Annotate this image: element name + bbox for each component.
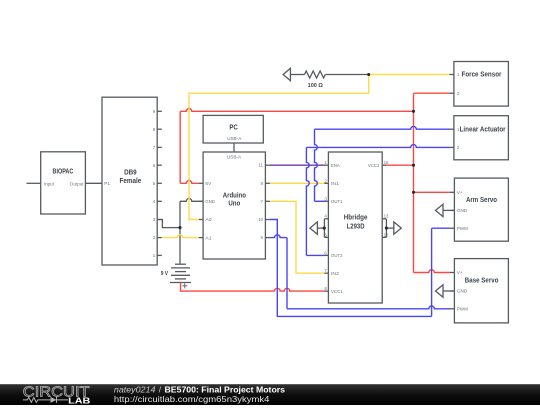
Force Sensor box xyxy=(454,62,509,107)
svg-text:GND: GND xyxy=(457,208,468,213)
battery plus sign xyxy=(182,285,187,287)
wire Arm Servo GND to ground port xyxy=(443,209,454,211)
Arm Servo box xyxy=(454,178,508,241)
wire DB9 pin3 to GND node xyxy=(157,220,180,228)
junction red VCC2 xyxy=(412,164,415,167)
junction left bracket xyxy=(323,227,326,230)
junction yellow resistor node xyxy=(367,73,370,76)
svg-text:PWM: PWM xyxy=(457,226,468,231)
wire red to Force Sensor pin2 xyxy=(414,92,450,94)
svg-text:Linear Actuator: Linear Actuator xyxy=(460,126,506,133)
ground port flag Arm Servo xyxy=(436,204,444,216)
wire yellow DB9 pin2 to A1 with hop over gray xyxy=(162,235,199,238)
Arduino Uno box xyxy=(203,152,265,259)
svg-text:GND: GND xyxy=(457,289,468,294)
junction GND node xyxy=(178,226,181,229)
wire red Hbridge VCC2 to node xyxy=(387,164,414,166)
wire BIOPAC output to DB9 P1 xyxy=(85,182,102,184)
svg-text:10: 10 xyxy=(258,217,263,222)
wire blue OUT2 vertical with hops xyxy=(306,147,309,255)
svg-text:A0: A0 xyxy=(205,217,212,222)
svg-text:Uno: Uno xyxy=(228,201,240,208)
logo resistor-diode glyph xyxy=(23,397,51,402)
svg-text:Arm Servo: Arm Servo xyxy=(466,197,497,204)
svg-text:Arduino: Arduino xyxy=(223,192,246,199)
Hbridge left pins ENA IN1 OUT1 OUT2 IN2 VCC1 xyxy=(324,164,329,166)
resistor R1 100 Ohm xyxy=(305,71,326,78)
DB9 Female connector box xyxy=(102,97,157,265)
svg-text:OUT2: OUT2 xyxy=(331,253,343,258)
svg-text:13: 13 xyxy=(384,214,389,219)
wire left bracket to ground port xyxy=(317,227,324,229)
wire purple Arduino 11 to ENA xyxy=(270,164,325,166)
svg-text:5V: 5V xyxy=(205,181,212,186)
wire blue OUT1 vertical with hops xyxy=(315,129,318,201)
wire BIOPAC input stub xyxy=(27,182,41,184)
wire red main vertical right side xyxy=(413,93,415,272)
ground port flag Base Servo xyxy=(436,285,444,297)
Linear Actuator box xyxy=(454,116,509,160)
ground port flag right of Hbridge xyxy=(394,222,402,234)
wire red vertical left xyxy=(179,111,181,183)
wire yellow Arduino 7 to IN2 xyxy=(270,201,325,273)
wire red battery plus to Hbridge VCC1 with hops over blues xyxy=(181,283,325,292)
wire blue Arduino 9 with hop over blue vertical xyxy=(270,235,287,238)
wire blue OUT1 to Linear Actuator pin1 with hop over red xyxy=(315,126,450,129)
Arduino left pins 5V GND A0 A1 xyxy=(199,182,203,184)
wire yellow A0 up-across to resistor node xyxy=(189,75,369,220)
svg-text:USB-A: USB-A xyxy=(227,154,242,159)
svg-text:100 Ω: 100 Ω xyxy=(308,83,324,89)
svg-text:V+: V+ xyxy=(457,270,463,275)
wire Base Servo GND to ground port xyxy=(443,290,454,292)
Hbridge right pin 16 VCC2 xyxy=(382,164,387,166)
port flag left of resistor xyxy=(283,68,290,80)
svg-text:16: 16 xyxy=(384,160,389,165)
Hbridge GND pins 4 5 bracket left xyxy=(324,218,328,220)
svg-text:USB-A: USB-A xyxy=(227,136,242,141)
svg-text:Force Sensor: Force Sensor xyxy=(462,72,502,79)
svg-text:natey0214: natey0214 xyxy=(114,385,156,395)
svg-text:http://circuitlab.com/cgm65n3y: http://circuitlab.com/cgm65n3ykymk4 xyxy=(114,394,270,404)
wire blue OUT2 to Linear Actuator pin2 with hop over red xyxy=(306,145,449,148)
svg-text:BE5700: Final Project Motors: BE5700: Final Project Motors xyxy=(165,385,286,395)
svg-text:PC: PC xyxy=(229,125,237,132)
wire yellow Arduino 8 to IN1 xyxy=(270,182,325,184)
svg-text:Female: Female xyxy=(120,178,142,185)
svg-text:Output: Output xyxy=(70,181,85,186)
svg-text:ENA: ENA xyxy=(331,163,341,168)
wire blue OUT1 stub xyxy=(315,200,325,202)
svg-text:Hbridge: Hbridge xyxy=(344,215,368,222)
Hbridge L293D box xyxy=(328,152,382,303)
wire red to Base Servo V+ with hop over blue xyxy=(414,270,451,273)
svg-text:GND: GND xyxy=(205,199,215,204)
DB9 pins 9..1 xyxy=(157,110,162,112)
junction red top rail xyxy=(412,110,415,113)
svg-text:DB9: DB9 xyxy=(124,169,137,176)
svg-text:LAB: LAB xyxy=(68,395,90,405)
Hbridge GND pins 13 12 bracket right xyxy=(382,218,386,220)
svg-text:P1: P1 xyxy=(104,181,110,186)
svg-text:9 V: 9 V xyxy=(161,271,169,277)
wire Arduino GND left with hop over yellow xyxy=(180,199,203,202)
wire red to Arm Servo V+ xyxy=(414,191,451,193)
Arduino top USB pin wire from PC xyxy=(233,143,235,152)
battery V1 9V plates xyxy=(175,263,186,265)
svg-text:VCC1: VCC1 xyxy=(331,289,343,294)
wire resistor left lead xyxy=(290,74,304,76)
svg-text:L293D: L293D xyxy=(347,223,365,230)
svg-text:BIOPAC: BIOPAC xyxy=(53,168,74,175)
svg-text:Base Servo: Base Servo xyxy=(465,278,499,285)
svg-text:IN1: IN1 xyxy=(331,181,339,186)
wire GND vertical down to battery top xyxy=(179,201,181,264)
svg-text:VCC2: VCC2 xyxy=(368,163,380,168)
svg-text:A1: A1 xyxy=(205,235,212,240)
svg-text:V+: V+ xyxy=(457,190,463,195)
Base Servo box xyxy=(454,259,508,323)
junction right bracket xyxy=(385,227,388,230)
wire blue to Base Servo PWM with hop xyxy=(287,306,450,309)
ground port flag left of Hbridge xyxy=(310,222,318,234)
svg-text:IN2: IN2 xyxy=(331,271,339,276)
svg-text:12: 12 xyxy=(384,232,389,237)
wire blue vertical to Base PWM row xyxy=(286,238,288,309)
wire red Arduino 5V with hop over yellow xyxy=(180,181,199,184)
wire resistor right lead to node xyxy=(325,74,368,76)
junction red Arm V+ xyxy=(412,191,415,194)
wire blue OUT2 stub xyxy=(306,254,324,256)
BIOPAC box xyxy=(41,152,86,214)
wire yellow node to Force Sensor pin1 xyxy=(369,74,450,76)
wire blue Arduino 10 to Arm Servo PWM xyxy=(270,220,432,317)
PC box xyxy=(203,115,263,143)
wire right bracket to ground port xyxy=(386,227,393,229)
svg-text:Input: Input xyxy=(44,181,55,186)
svg-text:OUT1: OUT1 xyxy=(331,199,343,204)
Arduino right pins 11 8 7 10 9 xyxy=(265,164,270,166)
svg-text:PWM: PWM xyxy=(457,307,468,312)
wire red top horizontal with hop over yellow xyxy=(180,109,413,112)
svg-text:11: 11 xyxy=(258,163,263,168)
